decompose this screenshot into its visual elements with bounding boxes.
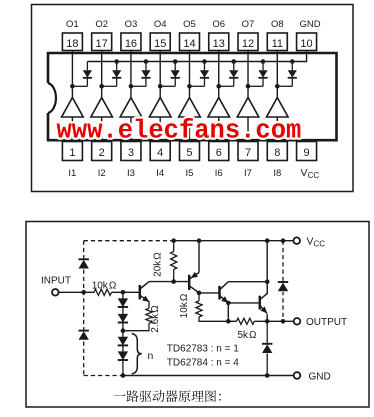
pin 16 box [121, 33, 141, 51]
node channel 3 output junction [129, 84, 134, 89]
svg-text:17: 17 [96, 38, 108, 50]
node 20k top junction [171, 238, 176, 243]
diode D2 input clamp down [78, 330, 90, 341]
output wire pin 11 [276, 51, 278, 98]
pin 12 box [238, 33, 258, 51]
diode D5 [118, 337, 128, 346]
svg-text:OUTPUT: OUTPUT [306, 317, 347, 328]
svg-text:GND: GND [299, 19, 320, 30]
node channel 7 output junction [246, 84, 251, 89]
wire Q3 emitter to Q4 base [228, 302, 258, 304]
node channel 4 output junction [158, 84, 163, 89]
node Q3 emitter junction [226, 301, 231, 306]
node diode D5 rail junction [202, 59, 207, 64]
node output dashed-diode junction [281, 319, 286, 324]
resistor R1 10kΩ [94, 289, 112, 295]
svg-text:18: 18 [66, 38, 78, 50]
pin 3 box [121, 142, 141, 161]
brace for n diodes [132, 334, 142, 374]
pin 15 box [150, 33, 170, 51]
node Q3 emitter output junction [226, 319, 231, 324]
node C stack mid junction [121, 328, 126, 333]
node D stack bottom junction [121, 373, 126, 378]
clamp diode D1 [72, 62, 92, 87]
transistor Q4 [259, 296, 262, 310]
wire Q1 emitter to R3 [148, 302, 150, 309]
pin 10 box [297, 33, 317, 51]
VCC terminal [293, 237, 300, 244]
pin 2 box [92, 142, 112, 161]
pin 6 box [209, 142, 229, 161]
clamp diode D4 [160, 62, 180, 87]
wire Q2 collector to rail [198, 241, 200, 273]
pin 5 box [179, 142, 199, 161]
svg-text:I2: I2 [98, 168, 106, 179]
clamp diode D3 [131, 62, 151, 87]
input wire pin 5 [188, 117, 190, 142]
svg-text:16: 16 [125, 38, 137, 50]
output wire pin 18 [71, 51, 73, 98]
pin 9 box [297, 142, 317, 161]
output wire pin 16 [130, 51, 132, 98]
pin 13 box [209, 33, 229, 51]
svg-text:6: 6 [216, 147, 222, 159]
buffer amplifier A3 [120, 98, 142, 118]
node 20k bottom / Q1 collector junction [171, 279, 176, 284]
buffer amplifier A2 [91, 98, 113, 118]
wire Q3 collector [228, 281, 267, 283]
svg-text:15: 15 [154, 38, 166, 50]
svg-text:O1: O1 [66, 19, 79, 30]
diode D8 [262, 343, 272, 345]
clamp diode D8 [277, 62, 297, 87]
wire input to node A [58, 291, 94, 293]
output wire pin 15 [159, 51, 161, 98]
node Q2 collector rail junction [197, 238, 202, 243]
figure 1 border frame [32, 5, 354, 192]
IC body U1 (18-pin DIP outline with notch) [48, 53, 337, 140]
svg-text:O8: O8 [271, 19, 284, 30]
buffer amplifier A1 [62, 98, 84, 118]
svg-text:2.6kΩ: 2.6kΩ [150, 305, 161, 333]
pin 7 box [238, 142, 258, 161]
node Q2 emitter junction [197, 291, 202, 296]
resistor R3 2.6kΩ [146, 308, 152, 323]
svg-text:O7: O7 [242, 19, 255, 30]
pin 8 box [267, 142, 287, 161]
svg-text:GND: GND [309, 371, 331, 382]
svg-text:2: 2 [99, 147, 105, 159]
input wire pin 6 [218, 117, 220, 142]
node B R1/diode-stack junction [121, 290, 126, 295]
dashed IC-boundary left rail [83, 241, 85, 376]
buffer amplifier A5 [179, 98, 201, 118]
IC body left index notch [48, 83, 56, 113]
node diode D8 rail junction [290, 59, 295, 64]
svg-text:5: 5 [186, 147, 192, 159]
wire R3 bottom to node C [123, 323, 149, 330]
svg-text:VCC: VCC [307, 236, 326, 249]
caption 一路驱动器原理图 (CJK rendered as paths) [114, 390, 221, 402]
resistor R2 20kΩ [173, 241, 175, 252]
OUTPUT terminal [294, 318, 301, 325]
wire R1 to Q1 base [112, 291, 139, 293]
node diode D7 rail junction [261, 59, 266, 64]
node channel 1 output junction [70, 84, 75, 89]
svg-text:20kΩ: 20kΩ [153, 252, 164, 277]
svg-text:www.elecfans.com: www.elecfans.com [57, 117, 302, 146]
svg-text:5kΩ: 5kΩ [237, 330, 257, 341]
svg-text:O4: O4 [154, 19, 167, 30]
GND line wire [123, 375, 294, 377]
svg-text:11: 11 [272, 38, 283, 50]
buffer amplifier A8 [266, 98, 288, 118]
svg-text:3: 3 [128, 147, 134, 159]
node rail dashed junction [281, 238, 286, 243]
node diode D3 rail junction [144, 59, 149, 64]
node channel 5 output junction [187, 84, 192, 89]
pin 1 box [62, 142, 82, 161]
wire R5 to OUTPUT terminal [254, 320, 294, 322]
svg-text:O3: O3 [125, 19, 138, 30]
buffer amplifier A6 [208, 98, 230, 118]
diode D7 output to VCC [277, 281, 289, 292]
wire Q4 emitter to output [266, 314, 268, 321]
svg-text:O2: O2 [95, 19, 108, 30]
input wire pin 2 [101, 117, 103, 142]
wire Q2 emitter to Q3 base [199, 292, 219, 294]
pin 4 box [150, 142, 170, 161]
node Q4 collector rail junction [265, 238, 270, 243]
GND terminal [294, 372, 301, 379]
svg-text:TD62783 : n = 1: TD62783 : n = 1 [167, 343, 239, 354]
wire Q3 emitter to output line [227, 303, 229, 321]
input wire pin 4 [159, 117, 161, 142]
input wire pin 3 [130, 117, 132, 142]
svg-text:I5: I5 [186, 168, 194, 179]
input wire pin 1 [71, 117, 73, 142]
pin 18 box [62, 33, 82, 51]
svg-text:TD62784 : n = 4: TD62784 : n = 4 [167, 358, 239, 369]
diode D1 input clamp up [78, 259, 90, 270]
svg-text:n: n [148, 350, 154, 362]
svg-text:I8: I8 [273, 168, 281, 179]
svg-text:I7: I7 [244, 168, 252, 179]
buffer amplifier A4 [149, 98, 171, 118]
clamp diode D6 [219, 62, 239, 87]
svg-text:12: 12 [242, 38, 254, 50]
svg-text:7: 7 [245, 147, 251, 159]
node channel 8 output junction [275, 84, 280, 89]
INPUT terminal [52, 289, 59, 296]
wire Q4 collector to rail [266, 241, 268, 295]
output wire pin 12 [247, 51, 249, 98]
svg-text:I4: I4 [156, 168, 164, 179]
node diode D4 rail junction [173, 59, 178, 64]
svg-text:9: 9 [303, 147, 309, 159]
diode D3 [118, 298, 128, 307]
node diode D2 rail junction [114, 59, 119, 64]
svg-text:I3: I3 [127, 168, 135, 179]
wire Q1 collector to Q2 base [149, 281, 188, 283]
dashed flyback diode branch [282, 241, 284, 322]
node Q4 emitter output junction [265, 319, 270, 324]
svg-text:I6: I6 [215, 168, 223, 179]
transistor Q1 [139, 285, 142, 299]
svg-text:13: 13 [213, 38, 225, 50]
node Q3/Q4 collector junction [265, 279, 270, 284]
figure 2 border frame [26, 222, 369, 408]
node diode D6 rail junction [231, 59, 236, 64]
VCC rail wire [174, 240, 294, 242]
svg-text:4: 4 [157, 147, 163, 159]
output wire pin 17 [101, 51, 103, 98]
clamp diode D8 output to GND wire [266, 321, 268, 344]
svg-text:INPUT: INPUT [41, 275, 71, 286]
GND rail wire from pin 10 across diode tops [87, 51, 306, 62]
diode D6 [118, 351, 128, 360]
diode D4 [118, 314, 128, 323]
node A input junction [81, 290, 86, 295]
clamp diode D2 [102, 62, 122, 87]
output wire pin 13 [218, 51, 220, 98]
svg-text:14: 14 [183, 38, 195, 50]
pin 17 box [92, 33, 112, 51]
node clamp diode GND junction [265, 373, 270, 378]
resistor R4 10kΩ [198, 293, 200, 301]
input wire pin 8 [276, 117, 278, 142]
diode stack wire [122, 292, 124, 375]
pin 11 box [267, 33, 287, 51]
input wire pin 7 [247, 117, 249, 142]
svg-text:10kΩ: 10kΩ [92, 281, 117, 292]
buffer amplifier A7 [237, 98, 259, 118]
transistor Q3 [218, 286, 221, 300]
resistor R5 5kΩ [237, 318, 255, 324]
output line wire [228, 320, 236, 322]
transistor Q2 [188, 275, 191, 290]
svg-text:10kΩ: 10kΩ [179, 293, 190, 318]
svg-text:1: 1 [69, 147, 75, 159]
svg-text:O5: O5 [183, 19, 196, 30]
node channel 6 output junction [216, 84, 221, 89]
svg-text:8: 8 [274, 147, 280, 159]
svg-text:I1: I1 [68, 168, 76, 179]
svg-text:10: 10 [300, 38, 312, 50]
node channel 2 output junction [99, 84, 104, 89]
clamp diode D5 [189, 62, 209, 87]
dashed bottom boundary rail [84, 375, 123, 377]
svg-text:O6: O6 [212, 19, 225, 30]
pin 14 box [179, 33, 199, 51]
clamp diode D7 [248, 62, 268, 87]
svg-text:VCC: VCC [301, 167, 320, 180]
output wire pin 14 [188, 51, 190, 98]
dashed top boundary rail [84, 240, 174, 242]
